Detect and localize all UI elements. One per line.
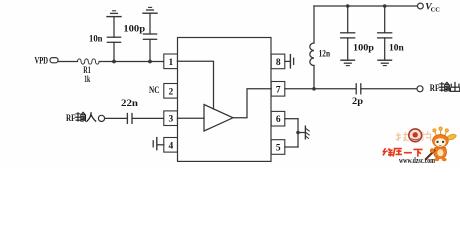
label Vcc [425, 3, 440, 14]
svg-text:10n: 10n [89, 34, 103, 44]
glyph shu (output) [439, 82, 449, 91]
ground under C5 [378, 60, 392, 65]
watermark text weiku-yixia [383, 148, 423, 156]
junction node B [148, 60, 152, 64]
terminal Vcc [418, 3, 424, 9]
wire R1 to pin 1 [99, 61, 164, 63]
watermark faint char zhao [396, 132, 409, 141]
junction pins 5-6 [296, 131, 300, 135]
pin 8 [271, 54, 285, 69]
svg-text:5: 5 [276, 144, 281, 154]
svg-text:CC: CC [431, 6, 441, 13]
watermark faint char pian [423, 131, 431, 141]
pin 7 [271, 82, 285, 97]
wire pin 3 to amp input [177, 117, 204, 119]
svg-text:10n: 10n [389, 43, 404, 53]
terminal RF output [417, 86, 423, 92]
wire pin 6 [285, 118, 298, 120]
junction node E [383, 4, 387, 8]
glyph shu (input) [76, 112, 86, 121]
ground under C4 [341, 60, 355, 65]
svg-text:1k: 1k [84, 74, 90, 84]
capacitor C2 100p [143, 14, 156, 62]
capacitor C5 10n [378, 6, 392, 60]
capacitor C6 2p [356, 84, 361, 94]
wire pin 1 internal [177, 61, 213, 109]
wire pin 7 to C6 [285, 88, 356, 90]
ground top of C1 [107, 11, 121, 17]
glyph ru (input) [87, 113, 96, 122]
svg-text:6: 6 [276, 115, 281, 125]
wire amp output to pin 7 [233, 89, 271, 118]
watermark mascot head [433, 135, 449, 148]
watermark text weiku-yixia white halo [383, 148, 423, 156]
ground at pin 8 [285, 55, 294, 68]
watermark mascot arm and pen [425, 149, 435, 160]
capacitor C3 22n [127, 114, 132, 124]
junction node C [312, 87, 316, 91]
svg-text:12n: 12n [319, 50, 331, 60]
pin 2 [164, 84, 178, 99]
wire RF input to C3 [105, 117, 128, 119]
wire VPD to R1 [58, 61, 77, 63]
svg-text:NC: NC [149, 86, 160, 96]
wire C3 to pin 3 [132, 117, 164, 119]
watermark mascot face [435, 138, 446, 147]
watermark mascot wing [448, 134, 457, 140]
glyph chu (output) [450, 82, 459, 91]
junction node A [112, 60, 116, 64]
pin 4 [164, 138, 178, 153]
capacitor C1 10n [107, 17, 120, 62]
op-amp U1 triangle [204, 105, 233, 132]
svg-text:22n: 22n [121, 99, 139, 109]
watermark mascot crown [433, 127, 448, 136]
terminal VPD [50, 58, 58, 63]
wire top rail to Vcc [314, 5, 417, 7]
svg-text:7: 7 [276, 85, 281, 95]
IC U1 body [178, 38, 272, 162]
pin 1 [164, 54, 178, 69]
svg-text:VPD: VPD [35, 56, 49, 66]
ground at pin 4 [153, 138, 164, 150]
resistor R1 [78, 59, 100, 64]
svg-text:RF: RF [430, 84, 440, 94]
pin 6 [271, 111, 285, 126]
svg-text:2: 2 [169, 87, 174, 97]
wire tie pins 5-6 [297, 119, 299, 147]
watermark mascot body [434, 147, 447, 158]
inductor L1 12n [310, 6, 314, 89]
svg-text:100p: 100p [353, 43, 374, 53]
svg-text:RF: RF [66, 114, 76, 124]
svg-text:4: 4 [169, 141, 174, 151]
pin 5 [271, 140, 285, 155]
wire C6 to RF output [361, 88, 417, 90]
wire pin 5 [285, 146, 298, 148]
svg-text:8: 8 [276, 58, 281, 68]
ground top of C2 [143, 7, 157, 13]
watermark mascot feet [434, 158, 446, 161]
svg-text:1: 1 [169, 58, 174, 68]
svg-text:www.dzsc.com: www.dzsc.com [399, 156, 435, 165]
pin 3 [164, 111, 178, 126]
svg-text:3: 3 [169, 115, 174, 125]
junction node D [346, 4, 350, 8]
watermark badge [409, 129, 422, 142]
capacitor C4 100p [341, 6, 355, 60]
ground at pins 5-6 [298, 126, 309, 139]
svg-text:2p: 2p [352, 97, 363, 107]
svg-text:100p: 100p [123, 25, 145, 35]
terminal RF input [98, 115, 104, 121]
